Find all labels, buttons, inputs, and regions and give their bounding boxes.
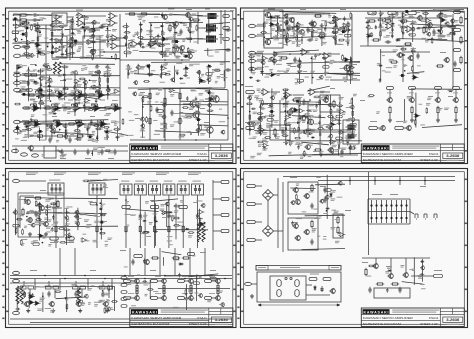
label text xyxy=(100,86,106,89)
label text xyxy=(24,134,29,136)
resistor R137 xyxy=(37,70,44,72)
wire W360 xyxy=(325,61,360,63)
label text xyxy=(151,47,156,50)
wire W124 xyxy=(64,135,76,137)
label text xyxy=(42,154,45,156)
resistor R179 xyxy=(54,127,56,134)
capacitor C23 xyxy=(307,38,313,41)
wire W241 xyxy=(362,257,430,259)
label text xyxy=(402,49,405,52)
svg-text:KAWASAKI: KAWASAKI xyxy=(132,146,157,150)
label text xyxy=(140,129,146,132)
wire W145 xyxy=(404,51,430,53)
node N77 xyxy=(312,77,314,79)
label text xyxy=(46,128,49,130)
transistor Q23 xyxy=(407,55,413,61)
wire W330 xyxy=(15,148,17,154)
label text xyxy=(22,73,29,74)
connector label P57 xyxy=(157,110,163,113)
label text xyxy=(210,270,216,271)
transistor Q66 xyxy=(50,23,55,28)
wire W125 xyxy=(12,145,128,147)
relay contact K3 xyxy=(434,214,437,219)
wire W41 xyxy=(38,74,46,76)
wire W382 xyxy=(287,140,362,142)
title block sheet 2 xyxy=(361,144,464,163)
label text xyxy=(163,64,168,66)
svg-text:3-2636: 3-2636 xyxy=(215,154,228,158)
node N39 junction xyxy=(168,199,170,201)
transistor Q65 xyxy=(34,42,39,47)
resistor R103 xyxy=(61,38,63,45)
label text xyxy=(99,109,104,112)
resistor R1 xyxy=(19,14,27,16)
resistor R31 xyxy=(89,123,97,125)
capacitor C98 xyxy=(18,90,23,92)
transistor Q98 xyxy=(140,124,145,129)
label text xyxy=(40,139,46,142)
label text xyxy=(191,89,197,92)
label text xyxy=(403,64,407,66)
label text xyxy=(92,23,96,26)
resistor R77 zigzag xyxy=(77,288,80,304)
resistor R190 xyxy=(296,35,298,42)
label text xyxy=(169,53,173,55)
transistor Q133 xyxy=(257,116,262,121)
IC module U43 xyxy=(177,184,189,195)
wire W198 xyxy=(48,281,50,286)
label text xyxy=(90,270,96,271)
capacitor C144 xyxy=(391,27,393,32)
label text xyxy=(170,124,174,126)
label text xyxy=(332,35,337,38)
wire W131 xyxy=(256,68,264,70)
capacitor C171 tant xyxy=(269,110,275,113)
wire W107 xyxy=(45,123,47,125)
op-amp U45 xyxy=(14,24,21,28)
wire W164 xyxy=(455,114,457,119)
diode D7 xyxy=(61,53,65,55)
resistor R234 xyxy=(298,126,300,133)
wire W33 xyxy=(118,45,126,47)
wire W313 xyxy=(198,103,200,136)
label text xyxy=(254,67,257,70)
aux box xyxy=(333,214,343,238)
svg-text:KAWASAKI SERVO AMPLIFIER: KAWASAKI SERVO AMPLIFIER xyxy=(131,152,182,156)
label text xyxy=(22,46,30,47)
wire W59 xyxy=(95,94,98,96)
resistor R150 xyxy=(46,69,53,71)
transistor Q6 xyxy=(186,53,192,59)
connector label P52 xyxy=(124,51,130,54)
label text xyxy=(336,60,339,63)
resistor R55 xyxy=(274,128,276,136)
resistor R141 xyxy=(84,83,86,90)
connector label P39 xyxy=(121,284,127,287)
resistor R163 xyxy=(207,110,214,112)
svg-text:KAWASAKI SERVO AMPLIFIER: KAWASAKI SERVO AMPLIFIER xyxy=(363,152,414,156)
label text xyxy=(322,42,327,44)
node N57 xyxy=(111,56,113,58)
label text xyxy=(76,28,81,30)
label text xyxy=(342,148,347,150)
label text xyxy=(86,55,92,58)
label text xyxy=(194,41,199,44)
label text xyxy=(183,24,187,26)
transistor Q10 xyxy=(205,126,213,134)
label text xyxy=(280,42,283,45)
op-amp U50 xyxy=(161,37,168,41)
resistor R73 zigzag xyxy=(202,222,205,242)
connector J20 xyxy=(245,282,252,285)
wire W184 xyxy=(129,248,131,275)
label text xyxy=(276,59,282,62)
op-amp U16 xyxy=(77,92,87,99)
wire W135 xyxy=(342,18,352,20)
label text xyxy=(176,56,180,58)
resistor R217 xyxy=(271,60,278,62)
relay contact K2 xyxy=(424,214,427,219)
transistor Q60 xyxy=(372,263,378,269)
capacitor C169 xyxy=(248,128,253,130)
transistor Q86 xyxy=(96,70,101,75)
transistor Q85 xyxy=(83,80,88,85)
wire W316 xyxy=(197,125,228,126)
resistor R52 xyxy=(292,99,300,101)
wire W274 xyxy=(206,23,230,25)
resistor R43 xyxy=(400,20,408,22)
op-amp U79 xyxy=(330,122,337,126)
resistor R177 xyxy=(46,125,53,127)
wire W191 xyxy=(10,278,232,280)
op-amp U22 xyxy=(113,105,123,112)
resistor R50 xyxy=(372,39,380,41)
resistor R88 xyxy=(311,184,313,192)
bridge rectifier D3 xyxy=(263,190,274,201)
resistor R239 xyxy=(327,116,334,118)
label text xyxy=(182,292,188,295)
transistor Q57 xyxy=(294,235,300,241)
wire W346 xyxy=(410,24,464,26)
wire W385 xyxy=(259,104,261,136)
label text xyxy=(102,40,106,42)
wire W294 xyxy=(107,64,109,99)
label text xyxy=(104,108,107,110)
cell resistor pair xyxy=(21,286,34,289)
op-amp U55 xyxy=(92,85,99,89)
wire W128 xyxy=(256,35,264,37)
capacitor C87 xyxy=(40,82,42,87)
wire W212 xyxy=(158,297,162,299)
label text xyxy=(121,181,129,182)
connector J12 xyxy=(249,34,256,37)
label text xyxy=(88,46,93,49)
resistor R172 xyxy=(65,129,67,136)
wire W376 xyxy=(349,145,351,155)
label text xyxy=(345,40,350,42)
label text xyxy=(257,67,264,68)
wire W262 xyxy=(140,13,190,16)
resistor R149 xyxy=(90,86,97,88)
IC module U42 xyxy=(163,184,175,195)
wire W39 xyxy=(21,82,31,84)
label text xyxy=(135,181,143,182)
label text xyxy=(441,35,446,38)
capacitor C140 tant xyxy=(268,16,274,19)
wire W75 xyxy=(71,107,74,109)
label text xyxy=(111,121,116,123)
node N68 xyxy=(89,80,91,82)
label text xyxy=(87,42,90,45)
label text xyxy=(140,136,145,139)
IC module U38 xyxy=(89,183,105,195)
connector label P66 xyxy=(350,123,356,126)
label text xyxy=(344,80,347,83)
label text xyxy=(270,69,273,71)
label text xyxy=(205,9,210,10)
wire W112 xyxy=(67,123,69,125)
ground G10 xyxy=(105,309,109,313)
label text xyxy=(215,81,218,83)
label text xyxy=(215,69,220,71)
diode D30 xyxy=(437,29,441,31)
label text xyxy=(290,72,296,75)
label text xyxy=(53,105,57,107)
wire W296 xyxy=(134,74,159,75)
label text xyxy=(345,24,351,27)
connector label P3 xyxy=(223,38,230,41)
label text xyxy=(298,69,303,72)
transistor Q28 xyxy=(304,144,310,150)
capacitor C30 xyxy=(281,129,284,135)
label text xyxy=(169,13,173,15)
op-amp U12 xyxy=(130,41,140,48)
wire W157 xyxy=(389,90,391,98)
ground G7 xyxy=(26,309,30,313)
label text xyxy=(112,29,117,31)
capacitor C124 xyxy=(96,135,98,139)
resistor R140 xyxy=(62,66,69,68)
svg-text:KAWASAKI SERVO AMPLIFIER: KAWASAKI SERVO AMPLIFIER xyxy=(131,316,182,320)
transistor Q27 xyxy=(307,119,314,125)
wire W29 xyxy=(67,43,83,45)
resistor R199 xyxy=(325,20,327,27)
label text xyxy=(288,26,292,29)
label text xyxy=(20,29,24,32)
capacitor C20 xyxy=(277,25,280,31)
label text xyxy=(266,18,271,21)
wire W69 xyxy=(43,107,45,109)
label text xyxy=(15,137,19,140)
transistor Q32 xyxy=(386,97,392,103)
wire W221 xyxy=(277,178,279,248)
resistor R34 xyxy=(76,135,84,137)
capacitor C51 bank cell xyxy=(400,200,402,223)
capacitor C70 tant xyxy=(21,33,27,36)
capacitor C110 xyxy=(148,74,153,76)
title block sheet 1 xyxy=(130,144,233,163)
label text xyxy=(70,27,73,29)
label text xyxy=(403,64,408,67)
label text xyxy=(33,69,37,72)
label text xyxy=(348,63,351,66)
resistor R164 xyxy=(142,96,149,98)
label text xyxy=(21,139,27,142)
wire W133 xyxy=(285,23,288,25)
wire W95 xyxy=(199,129,207,131)
capacitor C179 xyxy=(337,122,342,124)
wire W206 xyxy=(111,279,113,291)
wire W85 xyxy=(111,107,114,109)
wire W121 xyxy=(103,120,105,124)
label text xyxy=(12,33,19,34)
lamp xyxy=(285,277,287,279)
resistor R146 xyxy=(14,103,21,105)
label text xyxy=(120,250,126,251)
resistor R233 xyxy=(299,100,301,107)
connector label P38 xyxy=(121,277,127,280)
capacitor C115 tant xyxy=(206,91,212,94)
wire W65 xyxy=(30,107,33,109)
label text xyxy=(320,186,326,187)
capacitor C141 xyxy=(335,21,337,26)
label text xyxy=(295,78,300,81)
wire W373 xyxy=(412,47,414,80)
resistor R184 xyxy=(105,150,112,152)
wire W190 xyxy=(10,275,232,277)
wire W364 xyxy=(262,55,264,76)
capacitor C163 tant xyxy=(400,74,406,77)
label text xyxy=(265,22,269,24)
resistor R124 xyxy=(171,40,178,42)
capacitor C121 tant xyxy=(75,122,81,125)
cell resistor pair xyxy=(100,286,113,289)
op-amp U65 xyxy=(269,22,276,26)
label text xyxy=(154,26,160,29)
node N79 xyxy=(249,111,251,113)
connector label P6 xyxy=(408,11,417,14)
label text xyxy=(196,218,203,219)
svg-text:3-2636: 3-2636 xyxy=(446,154,459,158)
resistor R123 xyxy=(158,45,165,47)
label text xyxy=(86,108,89,110)
label text xyxy=(245,86,253,87)
label text xyxy=(90,80,96,81)
op-amp U18 xyxy=(32,105,42,112)
op-amp U23 xyxy=(33,121,43,128)
wire W138 xyxy=(250,53,340,55)
label text xyxy=(411,48,416,50)
wire W156 xyxy=(404,127,407,129)
wire W83 xyxy=(97,104,99,108)
wire W140 xyxy=(330,79,360,81)
capacitor C108 xyxy=(183,74,188,76)
resistor R96 xyxy=(25,31,27,38)
resistor R182 xyxy=(93,125,100,127)
wire W298 xyxy=(137,64,139,75)
label text xyxy=(262,104,268,105)
node N29 junction xyxy=(275,30,277,32)
resistor R6 xyxy=(140,13,148,15)
capacitor C9 xyxy=(225,68,231,71)
module box inner xyxy=(271,18,294,38)
capacitor C11 xyxy=(155,107,158,113)
connector label P14 xyxy=(395,126,404,129)
capacitor C131 xyxy=(277,29,279,34)
label text xyxy=(98,54,104,57)
label text xyxy=(85,158,91,159)
transformer box xyxy=(257,272,341,302)
label text xyxy=(312,58,316,61)
wire W94 xyxy=(185,114,193,116)
wire W287 xyxy=(27,67,29,102)
transistor Q129 xyxy=(319,75,324,80)
transistor Q51 xyxy=(187,295,193,301)
label text xyxy=(288,64,292,66)
resistor R180 xyxy=(88,123,90,130)
wire W356 xyxy=(440,10,442,37)
connector J19 xyxy=(13,311,20,314)
node N74 xyxy=(91,153,93,155)
node N69 xyxy=(35,64,37,66)
transistor Q52 xyxy=(214,295,220,301)
IC box lower xyxy=(270,125,290,140)
regulator box xyxy=(374,288,410,298)
resistor R227 xyxy=(259,124,261,131)
diode D18 xyxy=(73,93,77,95)
svg-text:SCHEMATIC DIAGRAM: SCHEMATIC DIAGRAM xyxy=(363,158,401,162)
resistor R242 xyxy=(352,110,354,117)
op-amp U27 xyxy=(332,16,342,23)
label text xyxy=(173,91,179,94)
label text xyxy=(109,72,112,75)
node N73 xyxy=(59,129,61,131)
wire W5 xyxy=(27,19,33,21)
transistor Q14 xyxy=(264,39,271,45)
wire W251 xyxy=(56,57,120,59)
label text xyxy=(74,130,81,133)
transistor Q26 xyxy=(299,115,306,121)
label text xyxy=(160,101,164,104)
resistor R145 xyxy=(107,77,109,84)
wire W163 xyxy=(455,90,457,98)
wire W80 xyxy=(91,107,94,109)
resistor R142 xyxy=(82,94,89,96)
transformer core box xyxy=(270,276,306,300)
node N8 junction xyxy=(181,59,183,61)
label text xyxy=(174,25,177,28)
label text xyxy=(149,31,152,34)
node N61 xyxy=(47,46,49,48)
wire W30 xyxy=(100,41,106,43)
IC box U pre-amp xyxy=(52,13,67,26)
op-amp U21 xyxy=(93,105,103,112)
label text xyxy=(156,38,159,40)
op-amp U32 xyxy=(405,26,415,33)
wire W113 xyxy=(75,123,78,125)
node N71 xyxy=(142,106,144,108)
resistor R57 xyxy=(348,147,356,149)
label text xyxy=(35,92,40,95)
IC module U39 xyxy=(120,184,132,195)
wire W281 xyxy=(43,87,121,88)
wire W227 xyxy=(374,177,376,186)
diode D17 xyxy=(62,74,66,76)
label text xyxy=(44,76,50,79)
wire W181 xyxy=(213,230,221,232)
label text xyxy=(311,71,315,73)
connector label P19 xyxy=(122,205,131,208)
